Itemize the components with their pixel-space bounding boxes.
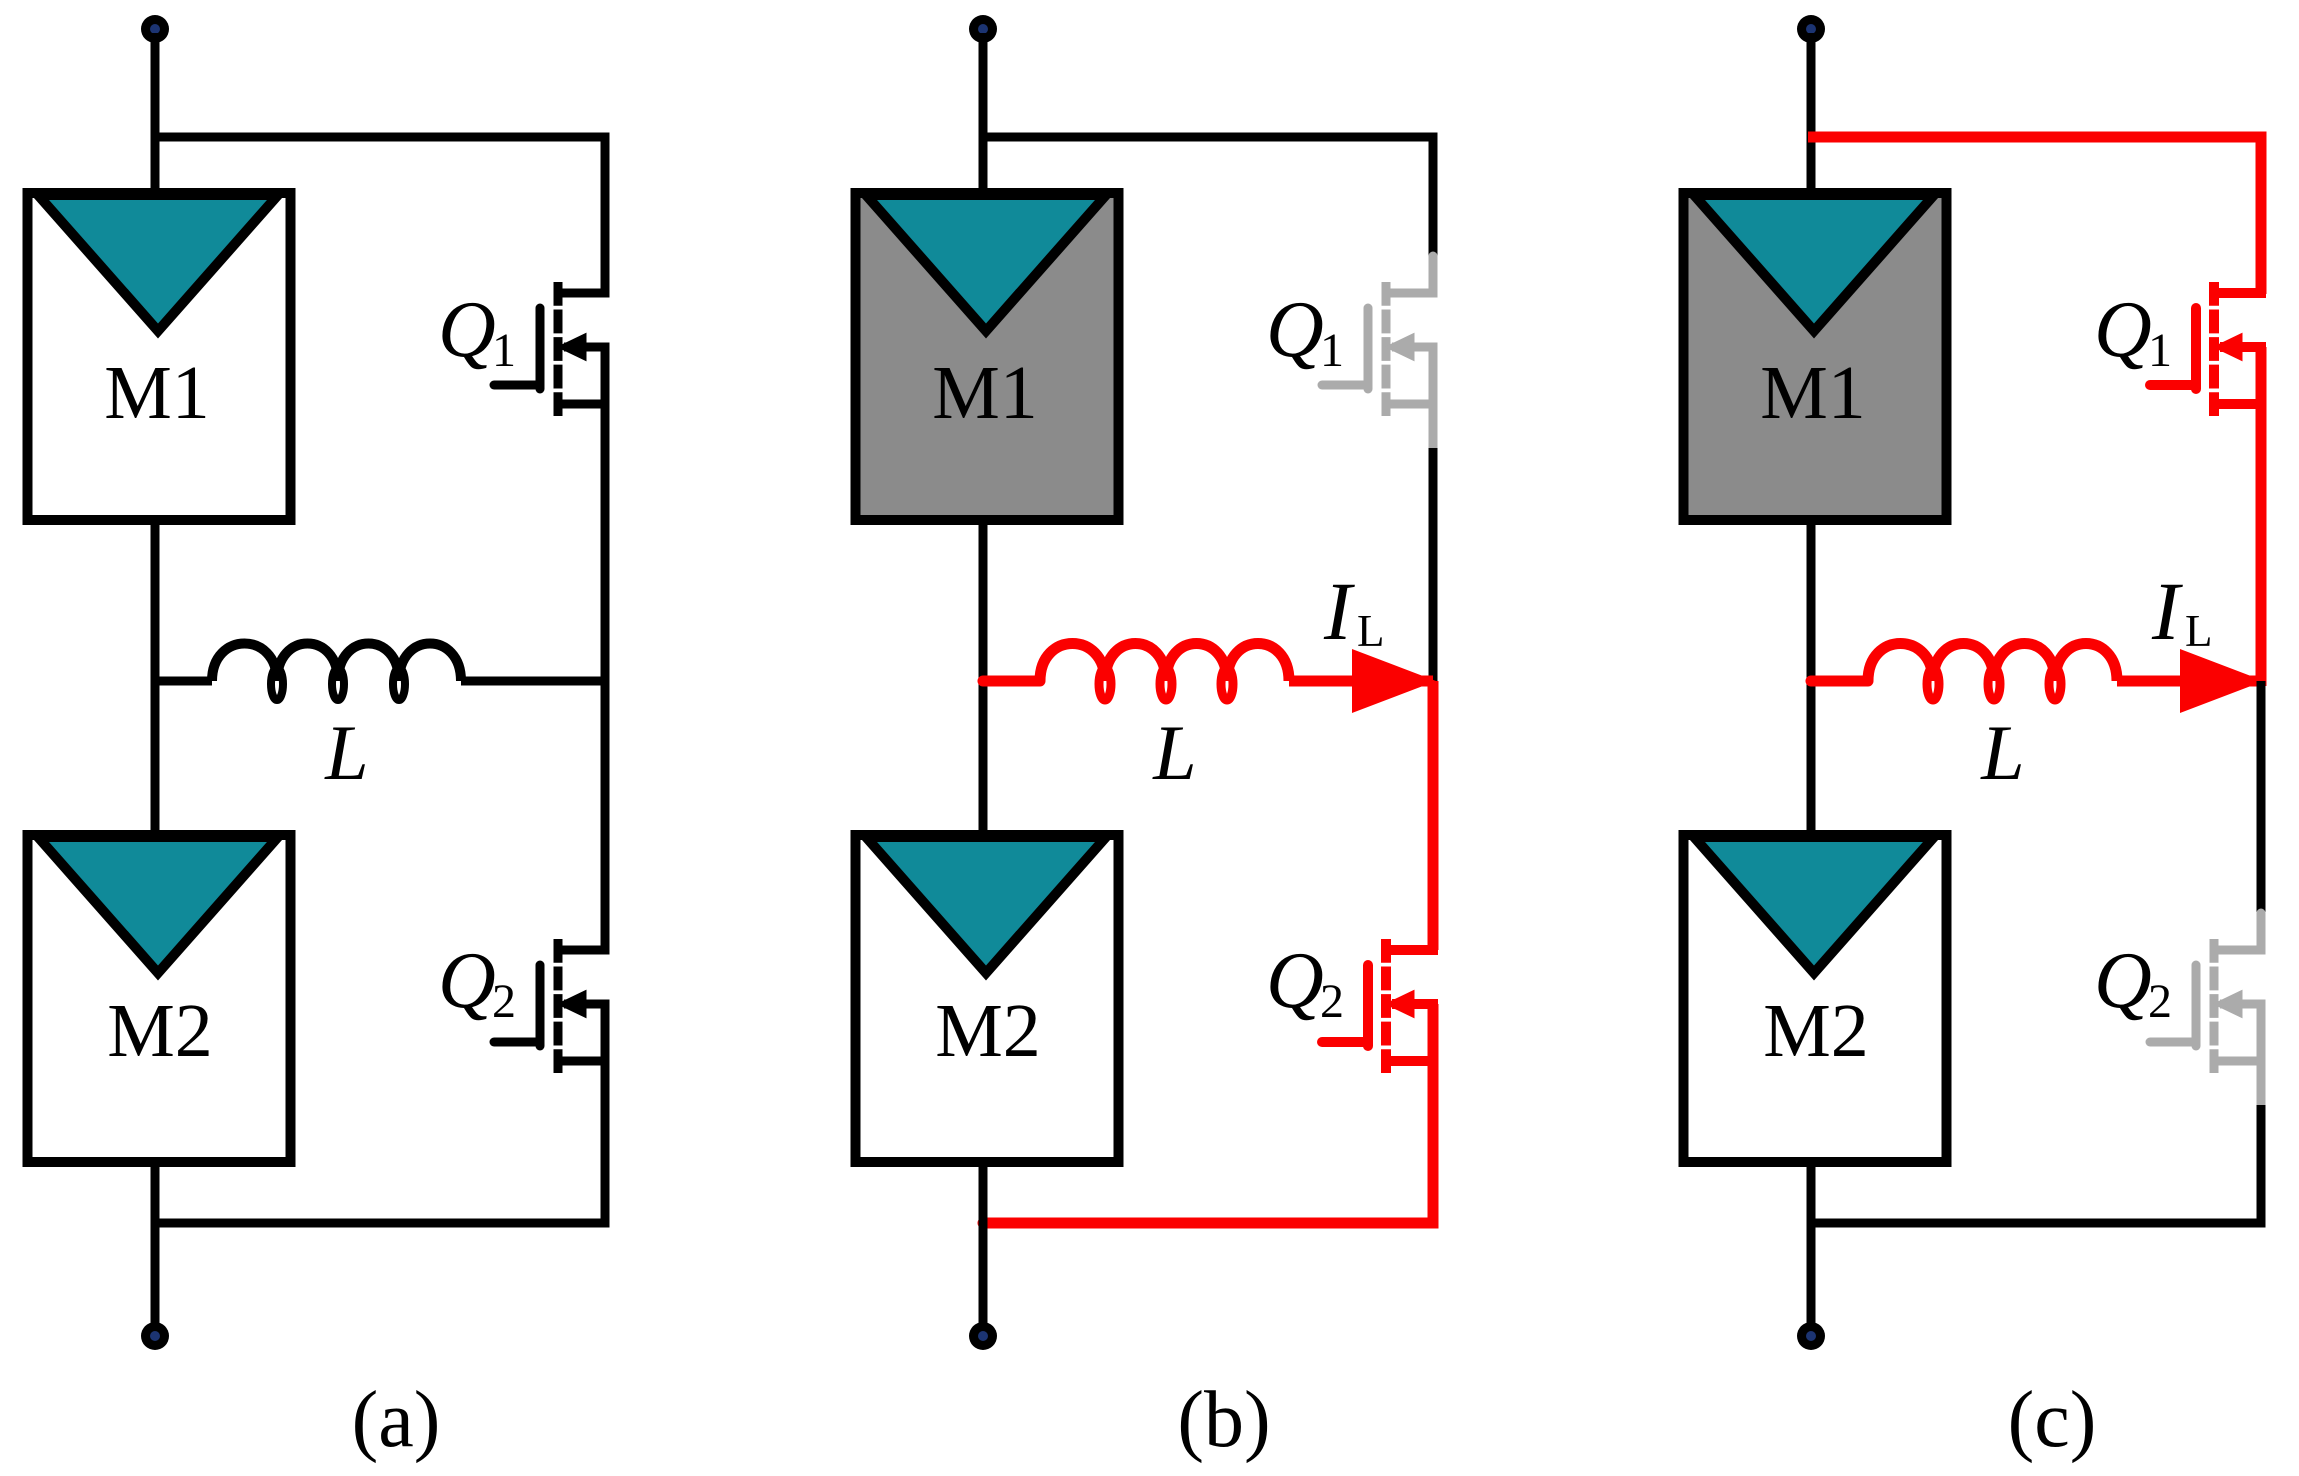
wire: M1 to M2 (a) (151, 515, 160, 840)
wire: M2 to bottom terminal (b) (979, 1157, 988, 1323)
wire: red bottom horizontal (b) (983, 1218, 1433, 1229)
svg-text:2: 2 (1320, 975, 1344, 1028)
svg-text:2: 2 (2148, 975, 2172, 1028)
svg-text:1: 1 (492, 324, 516, 377)
wire: bottom horizontal (a) (155, 1219, 605, 1228)
transistor Q1 active red (c) (2150, 282, 2266, 416)
wire: top horizontal to Q1 drain (b) (983, 137, 1433, 258)
svg-text:L: L (1357, 606, 1385, 656)
transistor Q2 inactive (c) (2150, 913, 2266, 1105)
node: bottom terminal (c) (1797, 1322, 1825, 1350)
wire: M2 to bottom terminal (a) (151, 1157, 160, 1323)
Q2 label (a) (438, 937, 516, 1028)
current arrow IL (b) (1352, 649, 1436, 713)
wire: right rail Q1 source to Q2 drain (a) (601, 347, 610, 950)
svg-text:2: 2 (492, 975, 516, 1028)
svg-text:(b): (b) (1177, 1376, 1270, 1464)
svg-text:Q: Q (1266, 937, 1324, 1025)
svg-text:M1: M1 (932, 351, 1038, 435)
inductor L red current path (c) (1811, 644, 2261, 701)
wire: red top horizontal to Q1 drain (c) (1808, 137, 2261, 294)
PV module M2 (b) (856, 835, 1119, 1162)
svg-text:(c): (c) (2008, 1376, 2097, 1464)
transistor Q1 inactive (b) (1322, 256, 1438, 448)
Q2 label (b) (1266, 937, 1344, 1028)
wire: M1 to M2 (b) (979, 515, 988, 840)
PV module M2 (c) (1684, 835, 1947, 1162)
inductor L (a) (155, 644, 605, 701)
svg-text:L: L (324, 709, 368, 796)
wire: top horizontal to Q1 drain (a) (155, 137, 605, 294)
wire: terminal to M1 (b) (979, 33, 988, 198)
PV module M1 shaded (b) (856, 193, 1119, 520)
wire: M2 to bottom terminal (c) (1807, 1157, 1816, 1323)
node: bottom terminal (a) (141, 1322, 169, 1350)
svg-text:Q: Q (438, 286, 496, 374)
svg-text:1: 1 (1320, 324, 1344, 377)
IL label (c) (2151, 565, 2213, 657)
current arrow IL (c) (2180, 649, 2264, 713)
svg-text:L: L (1980, 709, 2024, 796)
svg-text:L: L (2185, 606, 2213, 656)
transistor Q2 active red (b) (1322, 939, 1438, 1073)
wire: terminal to M1 (c) (1807, 33, 1816, 198)
svg-text:M2: M2 (107, 989, 213, 1073)
svg-text:I: I (1323, 565, 1355, 657)
IL label (b) (1323, 565, 1385, 657)
wire: rail Q1 source to L node (b) (1429, 448, 1438, 681)
PV module M1 shaded (c) (1684, 193, 1947, 520)
Q1 label (c) (2094, 286, 2172, 377)
svg-text:M1: M1 (104, 351, 210, 435)
transistor Q1 (a) (494, 282, 610, 416)
wire: rail L node to Q2 drain (c) (2257, 681, 2266, 912)
node: top terminal (c) (1797, 15, 1825, 43)
svg-text:Q: Q (438, 937, 496, 1025)
svg-text:1: 1 (2148, 324, 2172, 377)
wire: red Q2 source down (b) (1428, 1004, 1439, 1229)
wire: red rail L node to Q2 drain (b) (1428, 681, 1439, 950)
wire: Q2 source down (a) (601, 1004, 610, 1228)
wire: M1 to M2 (c) (1807, 515, 1816, 840)
svg-text:Q: Q (2094, 286, 2152, 374)
PV module M2 (a) (28, 835, 291, 1162)
svg-text:I: I (2151, 565, 2183, 657)
svg-text:Q: Q (1266, 286, 1324, 374)
transistor Q2 (a) (494, 939, 610, 1073)
PV module M1 (a) (28, 193, 291, 520)
svg-text:Q: Q (2094, 937, 2152, 1025)
wire: terminal to M1 (a) (151, 33, 160, 198)
svg-text:M1: M1 (1760, 351, 1866, 435)
wire: Q2 source down (c) (2257, 1105, 2266, 1228)
node: top terminal (b) (969, 15, 997, 43)
node: bottom terminal (b) (969, 1322, 997, 1350)
Q1 label (a) (438, 286, 516, 377)
svg-text:M2: M2 (1763, 989, 1869, 1073)
Q2 label (c) (2094, 937, 2172, 1028)
inductor L red current path (b) (983, 644, 1433, 701)
svg-text:L: L (1152, 709, 1196, 796)
svg-text:M2: M2 (935, 989, 1041, 1073)
node: top terminal (a) (141, 15, 169, 43)
Q1 label (b) (1266, 286, 1344, 377)
svg-text:(a): (a) (352, 1376, 441, 1464)
wire: bottom horizontal (c) (1811, 1219, 2261, 1228)
wire: red rail Q1 source to L node (c) (2256, 347, 2267, 686)
